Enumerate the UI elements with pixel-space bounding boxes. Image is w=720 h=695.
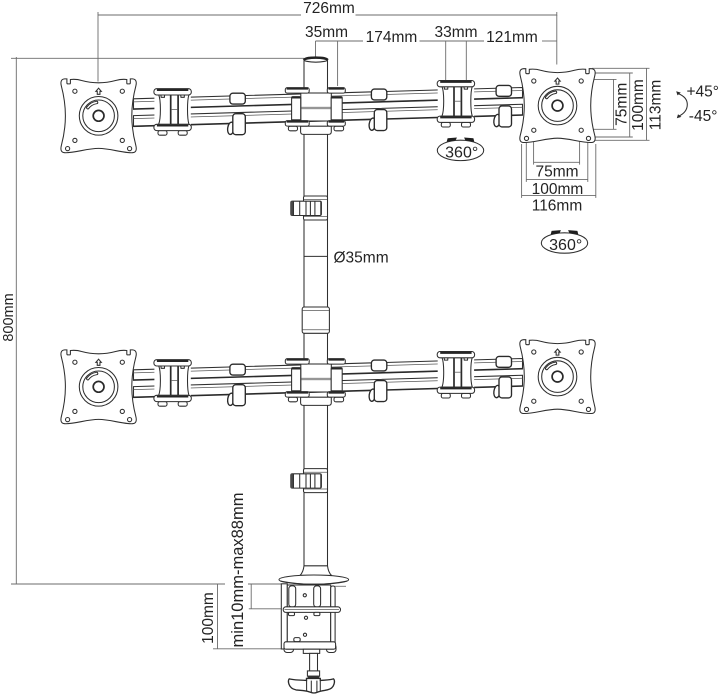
dim 75mm below plate (534, 131, 580, 165)
pole sleeve (302, 307, 329, 333)
dim 100mm vertical right (589, 73, 633, 137)
elbow joint bottom-left (154, 360, 191, 407)
svg-text:75mm: 75mm (535, 164, 578, 181)
vesa plate top-right (520, 69, 595, 143)
clamp wing knob (288, 678, 334, 693)
dim 726mm line (98, 12, 557, 82)
pole top cap (304, 57, 328, 62)
svg-text:100mm: 100mm (200, 592, 217, 644)
hub bottom (285, 359, 345, 406)
dim 100mm bottom (213, 584, 284, 649)
clamp front face (287, 585, 330, 649)
dim 116mm below plate (522, 144, 596, 198)
svg-text:Ø35mm: Ø35mm (334, 250, 389, 267)
clamp left wall (281, 584, 287, 649)
360 symbol lower (541, 230, 587, 254)
tilt arc +-45 (676, 91, 687, 118)
elbow joint top-right (437, 81, 474, 128)
hub top (285, 88, 345, 135)
svg-text:75mm: 75mm (614, 83, 631, 126)
clamp screw hole lower (303, 633, 306, 636)
clamp slot left (289, 586, 296, 607)
pole seam (304, 255, 328, 257)
svg-text:174mm: 174mm (366, 29, 418, 46)
svg-text:-45°: -45° (689, 108, 718, 125)
clamp small tab (294, 638, 300, 642)
vesa plate bottom-left (61, 350, 136, 424)
upper pole knob (291, 196, 328, 220)
dim 75mm vertical right (584, 79, 617, 129)
vesa plate bottom-right (520, 340, 595, 414)
pole tube (304, 59, 328, 567)
svg-text:726mm: 726mm (303, 0, 355, 17)
cable clips top row (230, 93, 245, 104)
clamp shelf (283, 607, 340, 616)
clamp bottom bracket (284, 642, 336, 654)
arm bar upper (bottom row) (134, 358, 523, 380)
clamp threaded rod (307, 653, 319, 676)
svg-text:113mm: 113mm (648, 80, 665, 131)
svg-text:100mm: 100mm (532, 181, 584, 198)
clamp right column (331, 586, 335, 648)
svg-text:800mm: 800mm (1, 293, 17, 341)
dim 113mm vertical right (592, 68, 650, 140)
clamp nut dark band (308, 676, 320, 679)
vesa plate top-left (61, 79, 136, 153)
dim 800mm (11, 57, 304, 584)
clamp cone (300, 566, 332, 576)
elbow joint top-left (154, 89, 191, 136)
arm bar lower (top row) (134, 104, 523, 126)
svg-text:min10mm-max88mm: min10mm-max88mm (229, 493, 247, 648)
svg-text:+45°: +45° (687, 84, 720, 101)
svg-text:116mm: 116mm (532, 198, 583, 215)
arm bar upper (top row) (134, 87, 523, 109)
dim min10mm-max88mm (249, 585, 283, 609)
dim 35/174/33/121 line (316, 41, 557, 86)
elbow joint bottom-right (437, 352, 474, 399)
clamp slot right (314, 586, 321, 607)
svg-text:100mm: 100mm (630, 79, 647, 131)
arm bar lower (bottom row) (134, 375, 523, 397)
clamp top disc (279, 575, 349, 586)
cable clips bottom row (230, 364, 245, 375)
svg-text:33mm: 33mm (434, 24, 477, 41)
clamp hole below shelf (304, 616, 307, 619)
lower pole knob (291, 469, 328, 493)
dim 100mm below plate (526, 139, 588, 182)
360 symbol upper (437, 138, 483, 162)
clamp screw hole upper (303, 594, 306, 597)
svg-text:121mm: 121mm (486, 29, 538, 46)
svg-text:35mm: 35mm (305, 24, 348, 41)
